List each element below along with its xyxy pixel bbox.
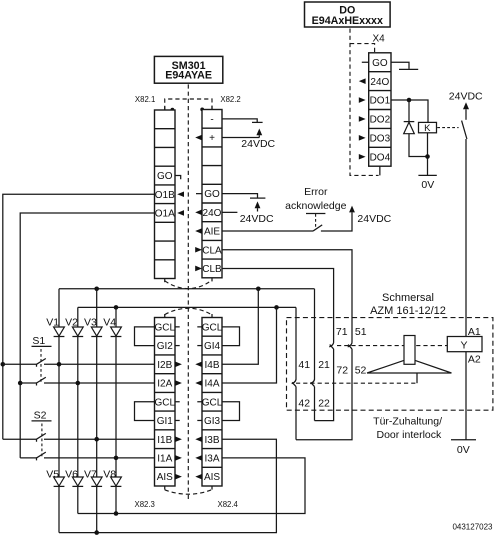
svg-text:52: 52 — [355, 364, 367, 376]
jumper X82.4 GCL-GI3 — [222, 402, 240, 421]
terminal strip X4 bracket — [350, 33, 385, 53]
wire X82.2 24O with 24VDC supply arrow — [222, 201, 274, 225]
terminal labels 71 51 — [336, 326, 367, 338]
contact 21/22 — [310, 379, 314, 386]
svg-text:I2B: I2B — [157, 360, 172, 371]
wire O1A to test-pulse rail 2 — [20, 213, 154, 458]
svg-text:DO3: DO3 — [370, 133, 391, 144]
svg-text:Error: Error — [304, 186, 328, 198]
X82.4 input arrow row 7 — [195, 436, 202, 442]
svg-text:I4B: I4B — [204, 360, 219, 371]
svg-text:DO4: DO4 — [370, 152, 391, 163]
ground 0V (interlock) — [451, 440, 476, 456]
svg-text:X82.2: X82.2 — [220, 95, 240, 104]
svg-text:A1: A1 — [468, 326, 481, 338]
node rail1/I2B — [1, 362, 6, 367]
svg-text:GI1: GI1 — [157, 416, 174, 427]
svg-text:V4: V4 — [103, 316, 116, 328]
terminal labels 42 22 — [298, 397, 330, 409]
terminal strip X82.3 — [154, 318, 175, 487]
svg-text:I2A: I2A — [157, 379, 172, 390]
svg-text:I4A: I4A — [204, 379, 219, 390]
K actuation dashed link — [437, 127, 458, 129]
X82.1 GO stub — [175, 176, 181, 180]
svg-text:E94AxHExxxx: E94AxHExxxx — [312, 15, 383, 27]
X82.3 stub row 6 — [175, 419, 180, 421]
wire diode chain V1/V5 — [58, 289, 60, 533]
node V1/I2B — [57, 362, 62, 367]
24VDC supply arrow (top right) — [449, 91, 483, 120]
X82.4 stub row 5 — [197, 401, 202, 403]
X4 DO1 output arrow — [359, 97, 366, 103]
svg-text:GI2: GI2 — [157, 341, 174, 352]
X82.3/X82.4 bottom dashed bracket — [165, 490, 212, 494]
X82.4 input arrow row 3 — [195, 362, 202, 368]
freewheel diode across K — [404, 100, 428, 157]
X82.3 input arrow row 7 — [175, 436, 182, 442]
wire diode chain V4/V8 — [115, 307, 117, 513]
svg-text:41: 41 — [298, 359, 310, 371]
door interlock dashed boundary — [287, 318, 493, 411]
svg-text:0V: 0V — [421, 179, 434, 191]
X82.3 stub row 2 — [175, 345, 180, 347]
X82.3 input arrow row 4 — [175, 380, 182, 386]
node DO1/diode junction — [407, 98, 412, 103]
terminal strip X82.2 — [202, 110, 222, 278]
X4 24O input arrow — [359, 78, 366, 84]
module boundary dashed line (DO) — [350, 29, 379, 176]
module U1 SM301 E94AYAE box — [154, 56, 222, 83]
node rail2/I2A — [18, 381, 23, 386]
svg-text:CLB: CLB — [202, 264, 222, 275]
svg-text:GCL: GCL — [202, 323, 223, 334]
svg-text:I1B: I1B — [157, 435, 172, 446]
X4 DO3 output arrow — [359, 135, 366, 141]
X82.2 GO left stub — [196, 193, 202, 195]
X4 DO4 output arrow — [359, 154, 366, 160]
diode V6 — [65, 469, 83, 487]
X4 DO2 output arrow — [359, 116, 366, 122]
wire V5/V7 return to I3B — [59, 439, 276, 532]
X82.2 + input arrow — [195, 135, 202, 141]
door tongue actuator — [367, 336, 452, 384]
wire X82.2 "-" to reference bar — [222, 119, 263, 123]
X82.2 AIE input arrow — [195, 228, 202, 234]
svg-text:acknowledge: acknowledge — [285, 200, 346, 212]
switch S2 contact a (I1B row) — [3, 433, 155, 441]
wire 41/42 (rail down) — [295, 307, 297, 439]
svg-text:CLA: CLA — [202, 245, 222, 256]
svg-text:24VDC: 24VDC — [357, 213, 391, 225]
X82.4 stub row 1 — [197, 326, 202, 328]
switch S2 label and link — [32, 410, 52, 458]
wire 52 to 42 — [296, 349, 352, 440]
diode V5 — [46, 469, 64, 487]
svg-text:22: 22 — [318, 397, 330, 409]
wire K coil to 0V — [427, 133, 429, 175]
svg-text:AIS: AIS — [204, 472, 220, 483]
svg-text:71: 71 — [336, 326, 348, 338]
X82.3 input arrow row 3 — [175, 362, 182, 368]
wire X4 GO to reference bar — [391, 62, 418, 69]
X82.2 24O input arrow — [195, 210, 202, 216]
svg-text:V1: V1 — [46, 316, 59, 328]
wire DO1 to relay K — [391, 100, 428, 122]
X82.3 input arrow row 9 — [175, 474, 182, 480]
svg-text:V8: V8 — [103, 469, 116, 481]
svg-text:GCL: GCL — [154, 397, 175, 408]
error acknowledge pushbutton — [306, 214, 325, 232]
svg-text:I1A: I1A — [157, 454, 172, 465]
node V3/I1B — [94, 437, 99, 442]
wire 21/22 (rail down) — [314, 289, 316, 421]
X82.4 ticks and label — [212, 314, 239, 509]
svg-text:Y: Y — [460, 340, 467, 352]
diode V8 — [103, 469, 121, 487]
jumper X82.4 GCL-GI4 — [222, 327, 240, 346]
svg-text:42: 42 — [298, 397, 310, 409]
X82.4 input arrow row 8 — [195, 455, 202, 461]
svg-text:AIS: AIS — [157, 472, 173, 483]
svg-text:V2: V2 — [65, 316, 78, 328]
mechanical dashed link 71/51 to Y — [337, 345, 447, 347]
K contact switch blade — [462, 121, 467, 139]
svg-text:V7: V7 — [84, 469, 97, 481]
svg-text:72: 72 — [336, 364, 348, 376]
ground 0V (DO section) — [418, 175, 436, 191]
wire X82.2 AIE to pushbutton — [222, 230, 313, 232]
svg-text:E94AYAE: E94AYAE — [165, 70, 212, 82]
node V4/I1A — [114, 456, 119, 461]
X82.1/X82.2 bottom dashed bracket — [165, 280, 212, 288]
contact 41/42 — [292, 379, 296, 386]
svg-text:AIE: AIE — [204, 227, 220, 238]
svg-text:V3: V3 — [84, 316, 97, 328]
svg-text:X82.4: X82.4 — [218, 500, 239, 509]
terminal strip X82.1 — [155, 110, 176, 279]
wire diode chain V3/V7 — [96, 289, 98, 533]
node I4B tap on 21 rail — [256, 287, 261, 292]
svg-text:K: K — [424, 123, 431, 134]
X82.4 stub row 2 — [197, 345, 202, 347]
X82.1 O1A output arrow — [177, 210, 184, 216]
svg-text:GO: GO — [372, 58, 388, 69]
wire X82.2 GO to reference bar — [222, 194, 265, 198]
mechanical dashed link 41/21 to door tongue — [296, 382, 417, 384]
switch S1 contact a (I2B row) — [3, 359, 155, 367]
svg-text:+: + — [209, 133, 215, 144]
wire switch to Y relay A1 — [465, 139, 467, 337]
diode V3 — [84, 316, 102, 336]
X4 GO left stub — [362, 61, 369, 63]
node X82.1 top corner — [171, 108, 175, 112]
svg-text:GCL: GCL — [154, 323, 175, 334]
svg-text:I3B: I3B — [204, 435, 219, 446]
svg-text:A2: A2 — [468, 353, 481, 365]
X82.4 stub row 6 — [197, 419, 202, 421]
svg-text:GI4: GI4 — [204, 341, 221, 352]
svg-text:S2: S2 — [34, 410, 47, 422]
svg-text:24VDC: 24VDC — [240, 213, 274, 225]
svg-text:X4: X4 — [373, 33, 386, 44]
label Tuer-Zuhaltung / Door interlock — [373, 415, 442, 440]
wire X82.2 "+" with 24VDC supply arrow — [222, 129, 276, 150]
wire diode chain V2/V6 — [77, 307, 79, 513]
node I4A tap on 41 rail — [274, 305, 279, 310]
X82.1 ticks — [164, 106, 166, 282]
label Schmersal AZM 161-12/12 — [370, 292, 446, 317]
svg-text:51: 51 — [355, 326, 367, 338]
svg-text:I3A: I3A — [204, 454, 219, 465]
wire I4A tap — [222, 307, 277, 383]
svg-text:V6: V6 — [65, 469, 78, 481]
svg-text:X82.3: X82.3 — [135, 500, 155, 509]
X82.3 stub row 5 — [175, 401, 180, 403]
switch S2 contact b (I1A row) — [20, 452, 154, 460]
svg-text:Door interlock: Door interlock — [377, 429, 443, 441]
svg-text:AZM 161-12/12: AZM 161-12/12 — [370, 305, 446, 317]
diode V2 — [65, 316, 83, 336]
svg-text:24VDC: 24VDC — [449, 91, 483, 103]
module U2 DO E94AxHExxxx box — [305, 2, 391, 27]
svg-text:24O: 24O — [370, 77, 389, 88]
switch S1 contact b (I2A row) — [20, 377, 154, 385]
node V7 on return — [94, 530, 99, 535]
X82.4 input arrow row 4 — [195, 380, 202, 386]
wire I4B tap — [222, 289, 258, 365]
wire CLB to terminal 71 — [222, 268, 334, 342]
svg-text:043127023: 043127023 — [452, 523, 493, 532]
diode V4 — [103, 316, 121, 336]
wire V6/V8 return to I3A — [78, 458, 305, 514]
X82.2 CLA output arrow — [195, 247, 202, 253]
node V3 on 21 rail — [94, 287, 99, 292]
terminal strips X82.1/X82.2 top dashed bracket — [165, 99, 212, 110]
svg-text:DO1: DO1 — [370, 96, 391, 107]
svg-text:S1: S1 — [32, 335, 45, 347]
svg-text:GO: GO — [157, 171, 173, 182]
diode V1 — [46, 316, 64, 336]
label Error acknowledge — [285, 186, 346, 212]
node X82.2 top corner — [200, 108, 204, 112]
wire pushbutton to 24VDC arrow — [321, 206, 392, 231]
switch S1 label and link — [32, 335, 52, 383]
contact 71/72 — [329, 343, 333, 349]
contact 51/52 — [348, 343, 352, 349]
svg-text:O1B: O1B — [155, 190, 175, 201]
svg-text:24VDC: 24VDC — [241, 138, 275, 150]
svg-text:GI3: GI3 — [204, 416, 221, 427]
svg-text:V5: V5 — [46, 469, 59, 481]
node V8 on return — [114, 511, 119, 516]
terminal strip X4 — [369, 53, 391, 166]
wire CLA to terminal 51 — [222, 250, 352, 343]
X82.2 ticks — [211, 106, 213, 281]
X82.3 stub row 1 — [175, 326, 180, 328]
svg-text:Tür-Zuhaltung/: Tür-Zuhaltung/ — [373, 415, 442, 427]
diode V7 — [84, 469, 102, 487]
svg-text:O1A: O1A — [155, 209, 175, 220]
jumper X82.3 GCL-GI2 — [135, 327, 155, 346]
svg-text:24O: 24O — [203, 208, 222, 219]
terminal strips X82.3/X82.4 top dashed bracket — [165, 308, 212, 314]
X82.4 input arrow row 9 — [195, 474, 202, 480]
X82.1 O1B output arrow — [177, 191, 184, 197]
wire Y A2 to 0V — [465, 352, 467, 440]
terminal strip X82.4 — [202, 318, 223, 487]
wire 41 rail (to terminal 41) — [78, 306, 296, 308]
svg-text:-: - — [210, 114, 213, 125]
svg-text:0V: 0V — [457, 444, 470, 456]
X82.3 input arrow row 8 — [175, 455, 182, 461]
wire O1B to test-pulse rail 1 — [3, 194, 155, 439]
svg-text:DO2: DO2 — [370, 115, 391, 126]
X4 bottom tick — [379, 166, 381, 175]
node K/0V junction — [425, 154, 430, 159]
svg-text:GO: GO — [204, 189, 220, 200]
svg-text:GCL: GCL — [202, 397, 223, 408]
jumper X82.3 GCL-GI1 — [135, 402, 155, 421]
module boundary dashed line (SM301 center) — [187, 84, 189, 500]
X82.3 ticks and label — [135, 314, 165, 509]
solenoid Y (A1/A2) — [447, 326, 482, 365]
terminal labels 41 21 — [298, 359, 330, 371]
node V4 on 41 rail — [114, 305, 119, 310]
X82.2 CLB output arrow — [195, 266, 202, 272]
svg-text:21: 21 — [318, 359, 330, 371]
relay coil K — [419, 122, 437, 134]
node V2/I2A — [76, 381, 81, 386]
wire 21 rail (to terminal 21) — [59, 288, 315, 290]
terminal labels 72 52 — [336, 364, 366, 376]
svg-text:X82.1: X82.1 — [135, 95, 155, 104]
wire 72 to 22 — [315, 349, 334, 421]
svg-text:Schmersal: Schmersal — [382, 292, 434, 304]
